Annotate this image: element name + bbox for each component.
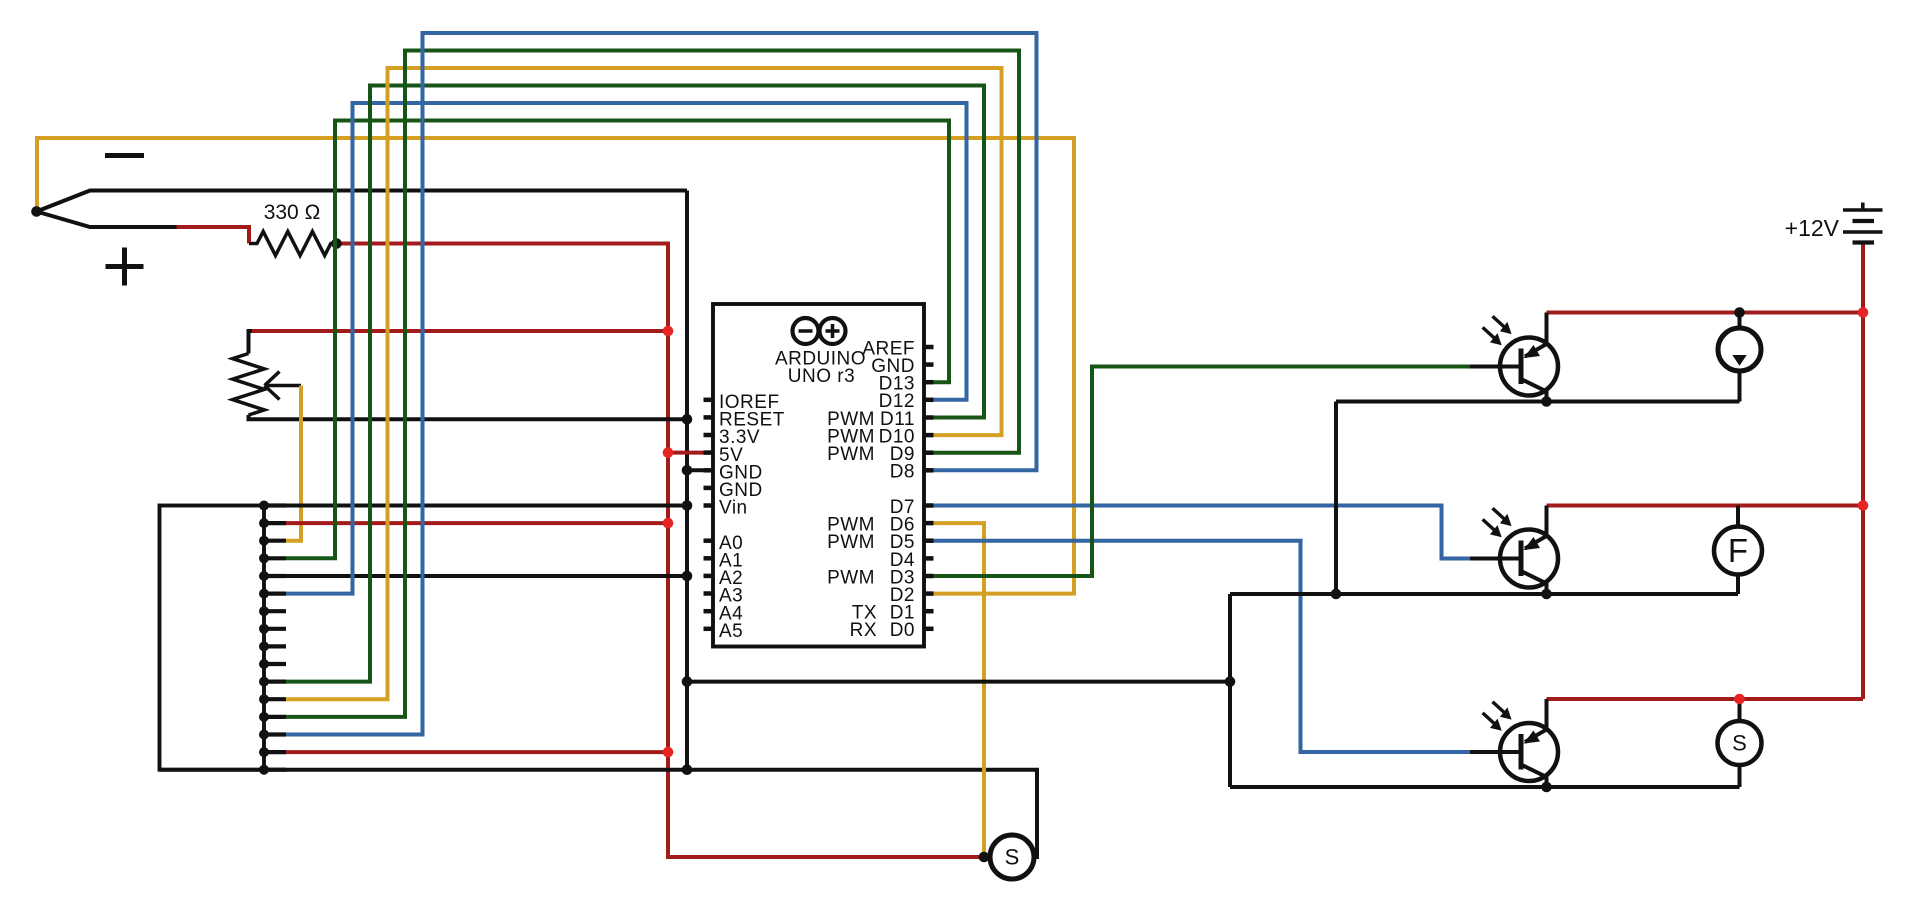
Arduino logo circle plus bbox=[820, 318, 846, 344]
Arduino left pin GND2 stub bbox=[704, 486, 714, 491]
LCD1 pin 4 junction dot bbox=[259, 553, 269, 563]
Arduino logo circle minus bbox=[793, 318, 819, 344]
LCD1 pin 6 junction dot bbox=[259, 589, 269, 599]
wire Q1 emitter rail bbox=[1336, 400, 1740, 404]
wire D3 to Q1 base (green) bbox=[934, 367, 1471, 577]
junction dot GND link on bus bbox=[682, 676, 693, 687]
LCD1 pin 16 junction dot bbox=[259, 765, 269, 775]
junction dot speaker S1 top bbox=[1734, 694, 1745, 705]
wire D6 to speaker S2 (orange) bbox=[934, 523, 985, 857]
Arduino right pin D0 stub bbox=[924, 627, 934, 632]
probe P1 lower edge (black part) bbox=[37, 212, 179, 228]
potentiometer RV1 bottom lead / wire to GND bus bbox=[249, 415, 688, 419]
potentiometer RV1 top lead bbox=[249, 331, 254, 354]
junction dot LCD pin5 on GND bus bbox=[682, 571, 693, 582]
LCD1 pin 9 junction dot bbox=[259, 641, 269, 651]
svg-text:Vin: Vin bbox=[719, 498, 748, 519]
Arduino right pin D7 stub bbox=[924, 503, 934, 508]
LCD1 pin 12 junction dot bbox=[259, 694, 269, 704]
junction dot Q1 emitter bbox=[1541, 396, 1552, 407]
junction dot LCD pin2 on red bus bbox=[663, 518, 674, 529]
Arduino right pin D10 stub bbox=[924, 433, 934, 438]
junction dot LCD pin1 on GND bus bbox=[682, 500, 693, 511]
label battery minus sign bbox=[105, 153, 144, 158]
wire LCD pin2 to red bus (5V) bbox=[286, 521, 668, 525]
speaker S1 top stub bbox=[1738, 699, 1742, 722]
wire Q3 emitter rail bbox=[1230, 785, 1740, 789]
junction dot GND link right bbox=[1225, 676, 1236, 687]
Arduino right pin D13 stub bbox=[924, 380, 934, 385]
junction dot RV1 bottom on GND bus bbox=[682, 414, 693, 425]
wire LCD pin14 to D8 (blue) bbox=[286, 33, 1037, 735]
wire probe plus (red) to resistor R1 bbox=[177, 227, 250, 244]
wire LCD pin12 to D10 (orange) bbox=[286, 68, 1002, 699]
Arduino left pin A3 stub bbox=[704, 591, 714, 596]
svg-text:D0: D0 bbox=[890, 620, 915, 641]
Arduino right pin D2 stub bbox=[924, 591, 934, 596]
Arduino left pin A2 stub bbox=[704, 574, 714, 579]
Arduino left pin A0 stub bbox=[704, 538, 714, 543]
Arduino left pin RESET stub bbox=[704, 415, 714, 420]
wire probe minus lead (orange, probe tip to D2 via top row) bbox=[37, 138, 1074, 594]
Arduino right pin D9 stub bbox=[924, 450, 934, 455]
junction dot RV1 top on red bus bbox=[663, 326, 674, 337]
LCD1 pin 10 junction dot bbox=[259, 659, 269, 669]
transistor Q2 (phototransistor) bbox=[1470, 506, 1558, 594]
svg-text:S: S bbox=[1005, 845, 1020, 870]
LCD1 body box bbox=[160, 506, 265, 770]
fan F1 bottom stub bbox=[1736, 575, 1740, 595]
wire LCD pin13 to D9 (green) bbox=[286, 51, 1019, 717]
LCD1 pin 13 stub bbox=[264, 715, 286, 719]
wire LCD pin5 to GND bus bbox=[286, 574, 687, 578]
wire mid GND vertical bbox=[1334, 402, 1338, 595]
Arduino right pin D6 stub bbox=[924, 521, 934, 526]
wire +12V rail to speaker S1 (bottom) bbox=[1547, 697, 1864, 701]
svg-text:UNO r3: UNO r3 bbox=[788, 366, 855, 387]
svg-text:S: S bbox=[1732, 731, 1747, 756]
LCD1 pin 1 stub bbox=[264, 503, 286, 507]
svg-text:F: F bbox=[1728, 532, 1748, 569]
Arduino left pin Vin stub bbox=[704, 503, 714, 508]
junction dot R1 right lead bbox=[331, 238, 342, 249]
LCD1 pin 2 stub bbox=[264, 521, 286, 525]
LCD1 pin 1 junction dot bbox=[259, 501, 269, 511]
wire LCD pin15 to red bus bbox=[286, 750, 668, 754]
motor M1 circle bbox=[1718, 328, 1761, 371]
LCD1 pin 15 stub bbox=[264, 750, 286, 754]
potentiometer RV1 zigzag bbox=[233, 354, 265, 416]
LCD1 pin 11 junction dot bbox=[259, 677, 269, 687]
wire RV1 wiper to LCD pin3 (orange) bbox=[286, 386, 301, 541]
motor M1 top stub bbox=[1738, 313, 1742, 329]
wire LCD pin1 to GND bus bbox=[286, 504, 687, 508]
junction dot Q3 emitter bbox=[1541, 782, 1552, 793]
LCD1 pin 14 stub bbox=[264, 732, 286, 736]
transistor Q1 (phototransistor) bbox=[1470, 313, 1558, 402]
Arduino right pin D1 stub bbox=[924, 609, 934, 614]
wire D7 to Q2 base (blue) bbox=[934, 506, 1475, 559]
LCD1 pin 2 junction dot bbox=[259, 518, 269, 528]
motor M1 bottom stub bbox=[1738, 371, 1742, 402]
Arduino left pin A4 stub bbox=[704, 609, 714, 614]
LCD1 pin 13 junction dot bbox=[259, 712, 269, 722]
Arduino left pin GND stub bbox=[704, 468, 714, 473]
svg-text:PWM: PWM bbox=[827, 567, 875, 588]
Arduino left pin A1 stub bbox=[704, 556, 714, 561]
Arduino right pin GND stub bbox=[924, 362, 934, 367]
speaker S2 circle bbox=[990, 835, 1034, 879]
svg-text:+12V: +12V bbox=[1785, 215, 1840, 241]
svg-text:PWM: PWM bbox=[827, 444, 875, 465]
Arduino right pin D5 stub bbox=[924, 538, 934, 543]
junction dot S2 input bbox=[979, 852, 990, 863]
battery BT1 +12V symbol bbox=[1843, 208, 1883, 212]
fan F1 circle bbox=[1714, 527, 1762, 575]
svg-text:RX: RX bbox=[850, 620, 877, 641]
transistor Q3 (phototransistor) bbox=[1470, 699, 1558, 787]
LCD1 pin 14 junction dot bbox=[259, 730, 269, 740]
fan F1 top stub bbox=[1736, 506, 1740, 528]
motor M1 triangle bbox=[1732, 355, 1746, 366]
LCD1 pin 6 stub bbox=[264, 591, 286, 595]
LCD1 pin 15 junction dot bbox=[259, 747, 269, 757]
junction dot motor top bbox=[1734, 307, 1745, 318]
Arduino right pin D4 stub bbox=[924, 556, 934, 561]
resistor R1 330 ohm zigzag bbox=[249, 232, 337, 256]
junction dot bottom rail on GND bus bbox=[682, 764, 693, 775]
wire Q2 emitter rail bbox=[1230, 592, 1738, 596]
Arduino right pin D8 stub bbox=[924, 468, 934, 473]
junction dot battery rail top bbox=[1858, 307, 1869, 318]
wire RV1 top to red bus (5V) bbox=[252, 329, 668, 333]
LCD1 pin 8 junction dot bbox=[259, 624, 269, 634]
LCD1 pin 12 stub bbox=[264, 697, 286, 701]
wire +12V rail to motor M1 (top) bbox=[1547, 311, 1864, 315]
wire LCD pin16 / bottom rail to speaker S2 bbox=[160, 770, 1038, 857]
Arduino U1 body box bbox=[713, 304, 924, 647]
wire R1 to 5V red bus bbox=[337, 244, 991, 858]
LCD1 pin 7 junction dot bbox=[259, 606, 269, 616]
Arduino right pin D11 stub bbox=[924, 415, 934, 420]
svg-text:330 Ω: 330 Ω bbox=[264, 201, 321, 224]
wire +12V rail to fan F1 (mid) bbox=[1547, 504, 1864, 508]
Arduino right pin D3 stub bbox=[924, 574, 934, 579]
wire right GND vertical bbox=[1228, 594, 1232, 787]
speaker S1 bottom stub bbox=[1738, 765, 1742, 787]
LCD1 pin 5 junction dot bbox=[259, 571, 269, 581]
Arduino left pin 5V stub bbox=[704, 450, 714, 455]
speaker S1 circle bbox=[1718, 721, 1762, 765]
svg-text:PWM: PWM bbox=[827, 532, 875, 553]
Arduino left pin A5 stub bbox=[704, 627, 714, 632]
wire battery positive vertical bbox=[1861, 244, 1865, 699]
junction dot probe tip bbox=[31, 206, 42, 217]
wire GND pin to GND bus bbox=[687, 468, 704, 472]
wire D5 to Q3 base (blue) bbox=[934, 541, 1475, 752]
Arduino left pin 3.3V stub bbox=[704, 433, 714, 438]
Arduino right pin D12 stub bbox=[924, 398, 934, 403]
junction dot battery rail mid bbox=[1858, 500, 1869, 511]
LCD1 pin 10 stub bbox=[264, 662, 286, 666]
wire LCD pin6 to D12 (blue) bbox=[286, 103, 967, 594]
junction dot LCD pin15 on red bus bbox=[663, 747, 674, 758]
wire GND bus vertical (left of Arduino) bbox=[685, 191, 689, 770]
svg-text:A5: A5 bbox=[719, 621, 743, 642]
probe P1 upper edge / wire to GND bus bbox=[37, 191, 688, 212]
potentiometer RV1 wiper arrow bbox=[265, 384, 302, 388]
LCD1 pin 8 stub bbox=[264, 627, 286, 631]
LCD1 pin 4 stub bbox=[264, 556, 286, 560]
junction dot GND pin on bus bbox=[682, 465, 693, 476]
LCD1 pin 5 stub bbox=[264, 574, 286, 578]
junction dot 5V on red bus bbox=[663, 447, 674, 458]
LCD1 pin 9 stub bbox=[264, 644, 286, 648]
junction dot Q2 emitter bbox=[1541, 589, 1552, 600]
LCD1 pin 3 junction dot bbox=[259, 536, 269, 546]
junction dot mid GND on Q2 rail bbox=[1331, 589, 1342, 600]
Arduino left pin IOREF stub bbox=[704, 398, 714, 403]
label battery plus sign bbox=[106, 264, 144, 269]
wire LCD pin11 to D11 (green) bbox=[286, 86, 984, 682]
LCD1 pin 3 stub bbox=[264, 539, 286, 543]
LCD1 pin 7 stub bbox=[264, 609, 286, 613]
LCD1 pin 11 stub bbox=[264, 679, 286, 683]
LCD1 pin 16 stub bbox=[264, 768, 286, 772]
Arduino right pin AREF stub bbox=[924, 345, 934, 350]
wire GND bus to right rail bbox=[687, 680, 1230, 684]
wire 5V pin to red bus bbox=[668, 451, 704, 455]
wire LCD pin4 to D13 (green) bbox=[286, 121, 949, 559]
svg-text:D8: D8 bbox=[890, 462, 915, 483]
